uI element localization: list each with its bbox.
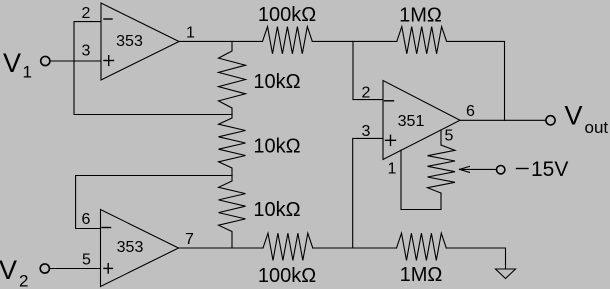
svg-text:1: 1 [23,62,32,81]
resistor R7 1M (bottom) [397,233,447,260]
wire V1 to U1 pin 3 [51,60,102,62]
svg-text:10kΩ: 10kΩ [253,199,300,221]
svg-text:7: 7 [185,231,194,248]
svg-text:10kΩ: 10kΩ [253,71,300,93]
wire U2 pin 6 [76,176,232,229]
wire node B to U3 pin 2 [353,41,383,99]
svg-text:1: 1 [186,25,195,42]
minus sign of -15V [517,168,529,170]
svg-text:10kΩ: 10kΩ [253,136,300,158]
svg-text:1MΩ: 1MΩ [400,264,443,286]
plus sign U1 [104,56,114,66]
svg-text:out: out [585,118,609,137]
terminal Vout [546,116,555,125]
wiper arrow to -15V [460,166,497,172]
svg-text:6: 6 [82,211,91,228]
svg-text:2: 2 [19,271,28,289]
ground [496,269,516,279]
wire 1M to ground [446,248,505,269]
resistor R5 10k (gain chain bottom) [219,176,246,249]
wire U1 output node [179,40,263,42]
terminal V2 [40,264,49,273]
resistor R6 100k (bottom) [263,233,313,260]
op-amp U1 (353, top) [101,3,179,80]
terminal -15V [497,166,505,174]
wire U3 pin 5 lead [440,130,442,145]
op-amp U2 (353, bottom) [101,210,179,287]
resistor R3 10k (gain chain top) [219,41,246,114]
svg-text:V: V [0,255,17,285]
svg-text:100kΩ: 100kΩ [258,265,316,287]
wire U1 pin 2 [74,22,232,115]
svg-text:2: 2 [82,5,91,22]
svg-text:353: 353 [116,33,143,50]
svg-text:V: V [3,48,21,78]
resistor R2 1M (top feedback) [397,27,447,54]
terminal V1 [41,56,50,65]
svg-text:5: 5 [82,252,91,269]
wire V2 to U2 pin 5 [50,268,101,270]
plus sign U3 [386,135,396,145]
minus sign U2 [102,227,111,229]
wire R1 to node B [312,40,397,42]
wire 1M to output node [447,41,505,120]
plus sign U2 [104,264,112,273]
svg-text:3: 3 [82,43,91,60]
svg-text:15V: 15V [531,158,568,181]
minus sign U1 [104,18,112,20]
svg-text:351: 351 [398,113,425,130]
svg-text:1: 1 [388,161,397,178]
svg-text:353: 353 [117,239,144,256]
svg-text:1MΩ: 1MΩ [399,5,442,27]
wire R6 to node C [313,247,397,249]
svg-text:3: 3 [362,123,371,140]
svg-text:100kΩ: 100kΩ [258,4,316,26]
wire U3 output to Vout [460,119,546,121]
svg-text:V: V [565,101,583,131]
svg-text:6: 6 [466,103,475,120]
resistor R4 10k (gain chain middle) [219,115,246,176]
wire node C to U3 pin 3 [353,138,383,248]
svg-text:5: 5 [445,128,454,145]
svg-text:2: 2 [362,85,371,102]
wire U2 output node [179,247,264,249]
resistor R1 100k (top) [263,27,313,54]
resistor R8 offset trim [428,145,456,193]
minus sign U3 [385,100,394,102]
op-amp U3 (351, output) [383,81,460,160]
wire trim to U3 pin 1 [401,150,441,209]
